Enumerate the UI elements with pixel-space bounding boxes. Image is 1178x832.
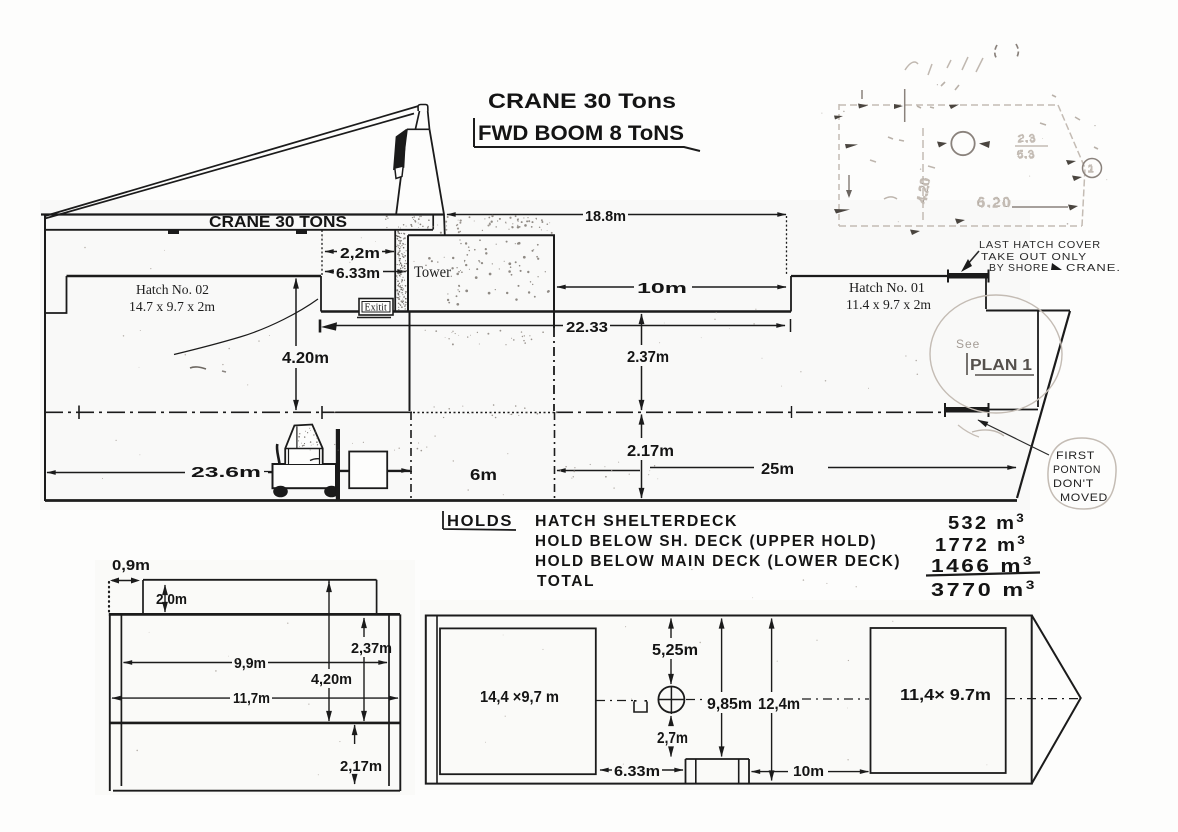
svg-text:CRANE 30 Tons: CRANE 30 Tons — [488, 90, 676, 113]
svg-text:2,37m: 2,37m — [351, 640, 392, 657]
svg-text:HATCH SHELTERDECK: HATCH SHELTERDECK — [535, 513, 738, 530]
svg-text:9,85m: 9,85m — [707, 696, 752, 713]
svg-text:TOTAL: TOTAL — [537, 573, 595, 590]
svg-text:14,4 ×9,7 m: 14,4 ×9,7 m — [480, 689, 559, 706]
svg-text:0,9m: 0,9m — [112, 557, 150, 574]
svg-text:HOLD BELOW MAIN DECK (LOWER D: HOLD BELOW MAIN DECK (LOWER DECK) — [535, 553, 901, 570]
svg-text:10m: 10m — [793, 763, 824, 780]
svg-text:PLAN 1: PLAN 1 — [970, 357, 1032, 374]
svg-text:See: See — [956, 337, 980, 351]
svg-text:BY SHORE: BY SHORE — [989, 262, 1049, 274]
svg-text:11.4 x 9.7 x 2m: 11.4 x 9.7 x 2m — [846, 298, 931, 313]
svg-text:6.33m: 6.33m — [614, 763, 660, 780]
svg-text:23.6m: 23.6m — [191, 464, 261, 481]
svg-text:2.3: 2.3 — [1018, 133, 1036, 145]
svg-text:2,2m: 2,2m — [340, 245, 380, 262]
svg-text:MOVED: MOVED — [1060, 492, 1108, 504]
svg-text:2.17m: 2.17m — [627, 443, 674, 460]
svg-text:22.33: 22.33 — [566, 319, 608, 336]
svg-text:Tower: Tower — [414, 264, 452, 281]
svg-text:5.3: 5.3 — [1017, 149, 1035, 161]
svg-text:2.37m: 2.37m — [627, 349, 669, 366]
svg-text:4.20m: 4.20m — [282, 350, 329, 367]
svg-text:Hatch No. 02: Hatch No. 02 — [136, 283, 209, 298]
svg-text:6m: 6m — [470, 467, 497, 484]
svg-text:PONTON: PONTON — [1053, 464, 1101, 476]
svg-text:11,7m: 11,7m — [233, 690, 270, 707]
svg-text:10m: 10m — [637, 280, 687, 297]
svg-text:5,25m: 5,25m — [652, 642, 698, 659]
svg-text:3770 m3: 3770 m3 — [931, 578, 1037, 600]
svg-text:FIRST: FIRST — [1056, 450, 1095, 462]
svg-text:1772 m3: 1772 m3 — [935, 533, 1027, 555]
svg-text:532 m3: 532 m3 — [948, 511, 1026, 533]
svg-text:HOLDS: HOLDS — [447, 513, 513, 530]
svg-text:LAST HATCH COVER: LAST HATCH COVER — [979, 239, 1101, 251]
svg-text:4,20m: 4,20m — [311, 671, 352, 688]
svg-text:1: 1 — [1088, 163, 1094, 175]
svg-text:6.20: 6.20 — [977, 194, 1012, 210]
svg-text:DON'T: DON'T — [1053, 478, 1094, 490]
svg-text:9,9m: 9,9m — [234, 655, 266, 672]
svg-text:Exitit: Exitit — [365, 303, 387, 314]
svg-text:2,17m: 2,17m — [340, 758, 382, 775]
svg-text:25m: 25m — [761, 461, 794, 478]
svg-text:2,7m: 2,7m — [657, 730, 688, 747]
svg-text:11,4× 9.7m: 11,4× 9.7m — [900, 687, 991, 704]
svg-text:6.33m: 6.33m — [336, 265, 380, 282]
svg-text:18.8m: 18.8m — [585, 208, 626, 225]
svg-text:HOLD BELOW SH. DECK (UPPER HOL: HOLD BELOW SH. DECK (UPPER HOLD) — [535, 533, 877, 550]
svg-text:Hatch No. 01: Hatch No. 01 — [849, 281, 925, 296]
svg-text:2.0m: 2.0m — [156, 591, 187, 608]
svg-text:CRANE.: CRANE. — [1066, 262, 1121, 274]
svg-text:14.7 x 9.7 x 2m: 14.7 x 9.7 x 2m — [129, 300, 215, 315]
svg-text:12,4m: 12,4m — [758, 696, 800, 713]
svg-text:CRANE 30 TONS: CRANE 30 TONS — [209, 214, 347, 231]
svg-text:FWD BOOM 8 ToNS: FWD BOOM 8 ToNS — [478, 122, 684, 145]
